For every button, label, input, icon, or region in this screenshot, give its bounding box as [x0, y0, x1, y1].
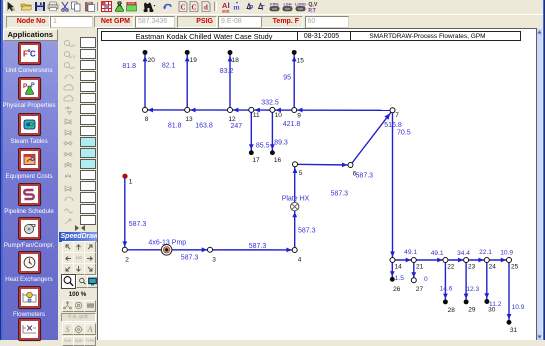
- svg-text:81.8: 81.8: [122, 63, 136, 70]
- svg-text:d: d: [204, 3, 208, 11]
- svg-text:0: 0: [424, 276, 428, 283]
- svg-text:27: 27: [416, 286, 424, 293]
- svg-text:23: 23: [468, 264, 476, 271]
- svg-text:3: 3: [212, 256, 216, 263]
- svg-text:19: 19: [190, 57, 198, 64]
- svg-text:12.3: 12.3: [466, 286, 479, 293]
- svg-text:82.1: 82.1: [162, 62, 176, 69]
- svg-text:P: P: [23, 83, 28, 90]
- svg-text:SR: SR: [71, 44, 76, 48]
- svg-text:14: 14: [395, 264, 403, 271]
- svg-text:16: 16: [274, 157, 282, 164]
- svg-text:13: 13: [185, 116, 193, 123]
- svg-text:29: 29: [468, 306, 476, 313]
- svg-text:421.8: 421.8: [283, 121, 301, 128]
- svg-text:49.1: 49.1: [404, 249, 417, 256]
- svg-text:85.5: 85.5: [256, 143, 270, 150]
- svg-text:22: 22: [447, 264, 455, 271]
- svg-text:10.9: 10.9: [512, 304, 525, 311]
- svg-text:VS: VS: [71, 66, 75, 70]
- svg-text:SIZE: SIZE: [222, 9, 230, 13]
- svg-text:30: 30: [488, 306, 496, 313]
- svg-text:163.8: 163.8: [195, 122, 213, 129]
- svg-text:83.2: 83.2: [220, 68, 234, 75]
- svg-text:LONG: LONG: [295, 3, 306, 7]
- svg-text:C: C: [180, 3, 185, 11]
- svg-text:C: C: [30, 50, 36, 59]
- svg-text:m: m: [233, 3, 240, 12]
- svg-text:NPS: NPS: [285, 7, 291, 11]
- svg-text:P: P: [248, 5, 253, 12]
- svg-text:NPS: NPS: [298, 7, 304, 11]
- svg-text:LGH: LGH: [283, 3, 291, 7]
- svg-text:587.3: 587.3: [331, 190, 349, 197]
- svg-text:F: F: [23, 50, 28, 59]
- svg-text:22.1: 22.1: [479, 249, 492, 256]
- svg-text:NPS: NPS: [272, 7, 278, 11]
- svg-text:DATA: DATA: [128, 1, 135, 5]
- svg-text:587.3: 587.3: [356, 173, 374, 180]
- svg-text:25: 25: [511, 264, 519, 271]
- svg-text:11: 11: [253, 112, 260, 119]
- svg-text:587.3: 587.3: [298, 227, 316, 234]
- svg-text:P,T: P,T: [308, 8, 316, 13]
- svg-text:1: 1: [129, 179, 133, 186]
- svg-text:34.4: 34.4: [457, 250, 470, 257]
- svg-text:C: C: [191, 3, 196, 11]
- svg-text:31: 31: [510, 327, 518, 334]
- svg-text:9: 9: [297, 112, 301, 119]
- svg-text:6: 6: [353, 171, 357, 178]
- svg-text:PIPE: PIPE: [270, 3, 279, 7]
- svg-text:15: 15: [297, 57, 305, 64]
- svg-text:26: 26: [393, 286, 401, 293]
- svg-text:81.8: 81.8: [168, 122, 182, 129]
- svg-text:2: 2: [125, 256, 129, 263]
- svg-text:5: 5: [299, 170, 303, 177]
- svg-text:89.3: 89.3: [274, 140, 288, 147]
- svg-text:516.8: 516.8: [384, 122, 402, 129]
- svg-text:10.9: 10.9: [500, 249, 513, 256]
- svg-text:LR: LR: [71, 55, 76, 59]
- svg-text:20: 20: [148, 57, 156, 64]
- svg-text:21: 21: [416, 264, 424, 271]
- svg-text:587.3: 587.3: [181, 254, 199, 261]
- svg-text:332.5: 332.5: [261, 100, 279, 107]
- svg-text:4x6-13 Pmp: 4x6-13 Pmp: [148, 239, 186, 246]
- svg-text:95: 95: [283, 74, 291, 81]
- svg-text:14.6: 14.6: [440, 285, 453, 292]
- svg-text:10: 10: [275, 112, 283, 119]
- svg-text:T: T: [260, 5, 265, 12]
- svg-text:49.1: 49.1: [431, 250, 444, 257]
- svg-text:12: 12: [228, 116, 236, 123]
- svg-text:P: P: [31, 83, 35, 89]
- svg-text:4: 4: [298, 257, 302, 264]
- svg-text:Plate HX: Plate HX: [282, 195, 310, 202]
- svg-text:28: 28: [448, 307, 456, 314]
- svg-text:24: 24: [489, 264, 497, 271]
- svg-text:587.3: 587.3: [249, 243, 267, 250]
- svg-text:17: 17: [252, 157, 260, 164]
- svg-text:70.5: 70.5: [397, 129, 411, 136]
- svg-text:18: 18: [232, 57, 240, 64]
- svg-text:8: 8: [145, 116, 149, 123]
- svg-text:587.3: 587.3: [129, 221, 147, 228]
- svg-text:247: 247: [230, 123, 242, 130]
- svg-text:1.5: 1.5: [395, 275, 404, 282]
- svg-text:7: 7: [395, 112, 399, 119]
